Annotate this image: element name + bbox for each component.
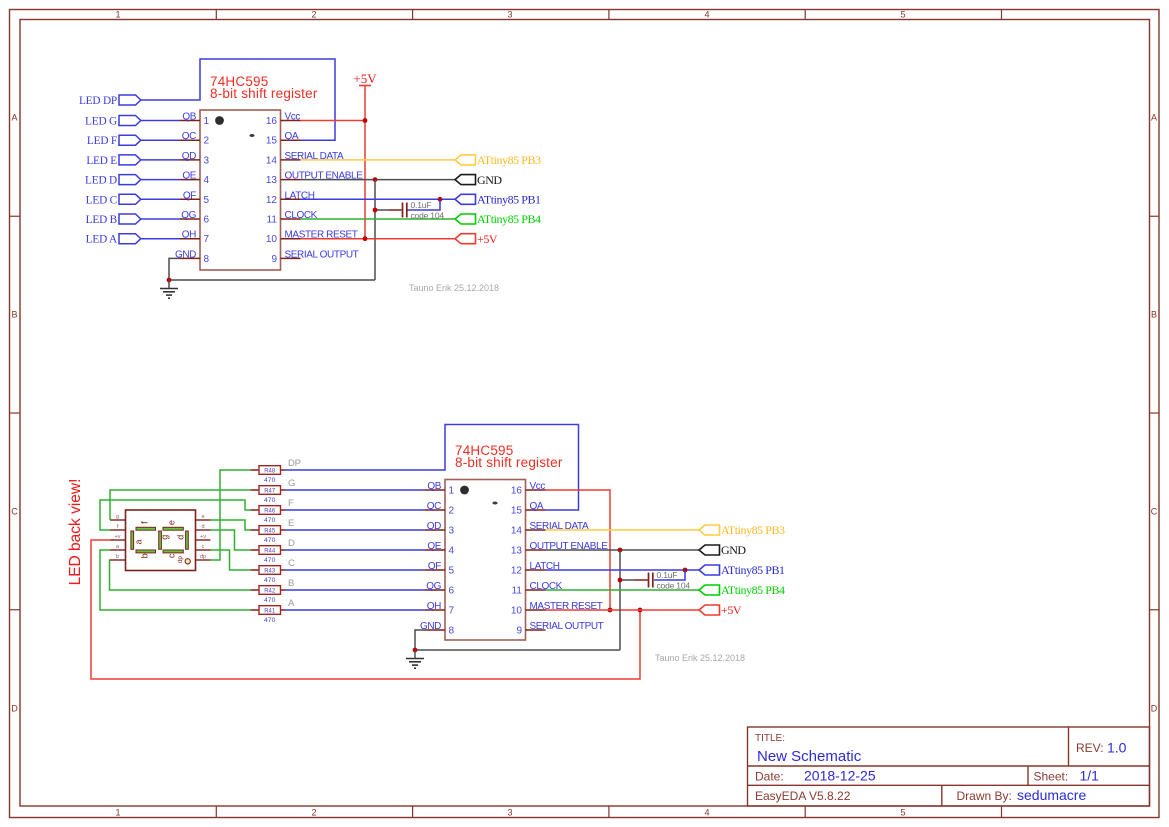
capacitor 0.1uF code 104 (bottom) [634,573,653,588]
junction capacitor/gray rail (bottom) [618,578,623,583]
wire LED G to pin [141,120,180,122]
svg-text:15: 15 [511,506,523,517]
net flag LED D [85,175,141,187]
U1 pin 7 QH [180,230,210,246]
U1 pin 2 QC [180,131,210,147]
svg-text:14: 14 [266,155,278,166]
segment g [159,531,170,549]
U1 pin 16 Vcc [266,112,301,128]
wire d to R44 (green) [211,530,251,550]
resistor R44 470 [251,546,286,564]
svg-text:g: g [160,535,170,540]
svg-text:5: 5 [900,10,905,20]
wire +v to +5V rail (red) [91,540,640,679]
net label C [288,558,295,569]
resistor R45 470 [251,526,286,544]
svg-text:LED back view!: LED back view! [67,479,84,586]
svg-text:1: 1 [449,486,455,497]
svg-text:EasyEDA V5.8.22: EasyEDA V5.8.22 [755,789,851,803]
net flag LED F [87,135,141,147]
net flag ATtiny85 PB4 (top circuit) [455,212,541,226]
capacitor 0.1uF code 104 (top) [389,203,408,218]
7-segment LED display DS1 body [126,510,196,571]
U1 pin 14 SERIAL DATA [266,151,344,167]
svg-text:LED F: LED F [87,135,117,147]
svg-text:7: 7 [449,606,455,617]
note Tauno Erik 25.12.2018 (top) [409,283,499,293]
svg-text:+5V: +5V [353,71,377,86]
title block REV: 1.0 [1076,740,1127,756]
svg-text:3: 3 [507,808,512,818]
label LED back view! [67,479,84,586]
svg-text:6: 6 [204,215,210,226]
U1 pin 1 QB [180,112,210,128]
wire SERIAL DATA to ATtiny85 PB3 (yellow) [301,159,456,161]
U1 pin 10 MASTER RESET [266,230,358,246]
capacitor code 104 [411,211,445,221]
U1 pin 12 LATCH [266,190,315,206]
op: top circuit 74HC595 shift register U1 [0,0,1,1]
segment d [175,531,188,549]
svg-text:dp: dp [177,556,184,564]
svg-text:1/1: 1/1 [1080,768,1100,784]
svg-text:1.0: 1.0 [1107,740,1127,756]
U2 pin 14 SERIAL DATA [511,521,589,537]
U2 label 74HC595 8-bit shift register [455,443,563,470]
svg-text:B: B [11,310,17,320]
svg-text:c: c [202,544,205,550]
U1 pin 8 GND [175,249,210,265]
svg-text:6: 6 [449,586,455,597]
svg-text:R48: R48 [264,468,276,474]
DS1 right pin e [196,514,211,520]
svg-text:LED A: LED A [86,234,118,246]
U1 pin 5 QF [180,190,210,206]
net flag LED A [86,234,141,246]
U2 pin 15 QA [511,501,546,517]
junction LATCH/capacitor (bottom) [683,568,688,573]
wire SERIAL DATA to ATtiny85 PB3 (yellow, bottom) [546,529,700,531]
resistor R41 470 [251,606,286,624]
svg-text:d: d [201,524,204,530]
svg-text:QB: QB [427,481,441,492]
net flag LED G [85,116,141,128]
svg-text:Vcc: Vcc [530,481,546,492]
DS1 left pin f [110,524,126,530]
junction Vcc/+5V [363,118,368,123]
svg-text:ATtiny85 PB1: ATtiny85 PB1 [477,193,541,207]
svg-text:8-bit shift register: 8-bit shift register [210,86,318,101]
svg-text:4: 4 [704,808,709,818]
svg-text:QH: QH [427,601,441,612]
svg-text:470: 470 [264,557,276,564]
svg-text:QE: QE [427,541,441,552]
svg-text:code 104: code 104 [657,581,691,591]
note Tauno Erik 25.12.2018 (bottom) [655,653,745,663]
svg-text:470: 470 [264,577,276,584]
net flag +5V (top circuit) [455,232,498,246]
net flag GND (bottom circuit) [699,543,746,557]
svg-text:QB: QB [182,112,196,123]
svg-text:LED G: LED G [85,116,117,128]
svg-text:GND: GND [721,543,746,557]
svg-text:A: A [1151,113,1157,123]
title block TITLE: New Schematic [755,733,862,765]
svg-text:QD: QD [427,521,441,532]
wire c to R43 (green) [211,550,251,570]
wire f to R46 (green) [100,500,251,530]
svg-text:C: C [11,507,18,517]
svg-text:4: 4 [449,546,455,557]
svg-text:REV:: REV: [1076,741,1104,755]
segment a [131,531,144,549]
wire a to R41 (green) [100,550,251,610]
net label E [288,518,294,529]
svg-text:A: A [288,598,295,609]
svg-text:a: a [134,539,144,544]
svg-text:QA: QA [285,131,299,142]
svg-text:b: b [116,554,119,560]
svg-text:1: 1 [115,10,120,20]
wire LED E to pin [141,159,180,161]
U1 pin 6 QG [180,210,210,226]
svg-text:+5V: +5V [477,232,498,246]
svg-text:sedumacre: sedumacre [1017,787,1086,803]
svg-text:QE: QE [182,171,196,182]
power symbol +5V (top) [353,71,377,121]
segment c [163,550,183,558]
svg-text:E: E [288,518,294,529]
wire dp to R48 (green) [211,470,251,560]
svg-text:QC: QC [427,501,441,512]
junction Vcc rail / MASTER RESET [608,608,613,613]
svg-text:QF: QF [183,190,196,201]
svg-text:QC: QC [182,131,196,142]
net flag LED B [86,214,141,226]
resistor R43 470 [251,566,286,584]
net label A [288,598,295,609]
svg-text:QA: QA [530,501,544,512]
U2 pin 12 LATCH [511,561,560,577]
svg-text:SERIAL OUTPUT: SERIAL OUTPUT [530,621,604,632]
U2 pin 13 OUTPUT ENABLE [511,541,608,557]
svg-text:C: C [288,558,295,569]
net label D [288,538,295,549]
svg-text:B: B [288,578,294,589]
U2 pin 2 QC [425,501,455,517]
U1 pin 13 OUTPUT ENABLE [266,171,363,187]
U1 pin 4 QE [180,171,210,187]
wire Vcc to +5V rail [301,120,366,122]
svg-text:QF: QF [428,561,441,572]
svg-text:c: c [166,553,176,558]
svg-text:13: 13 [266,175,278,186]
svg-text:470: 470 [264,517,276,524]
U2 pin 9 SERIAL OUTPUT [516,621,603,637]
svg-text:13: 13 [511,546,523,557]
wire capacitor right lead to LATCH [408,199,440,210]
wire ground rail (gray) [169,279,375,281]
wire capacitor left lead (gray) [375,209,389,211]
svg-text:R42: R42 [264,588,276,594]
wire GND pin to ground (bottom) [415,630,425,650]
svg-text:3: 3 [449,526,455,537]
svg-text:11: 11 [512,586,523,597]
svg-text:QG: QG [181,210,196,221]
svg-text:d: d [175,535,185,540]
svg-text:ATtiny85 PB3: ATtiny85 PB3 [721,523,785,537]
DS1 left pin b [110,554,126,560]
svg-text:R45: R45 [264,528,276,534]
U2 pin 3 QD [425,521,455,537]
svg-text:0.1uF: 0.1uF [657,570,678,580]
svg-text:A: A [11,113,17,123]
wire capacitor left lead (gray, bottom) [620,579,634,581]
segment b [136,550,156,558]
svg-text:2018-12-25: 2018-12-25 [804,768,876,784]
svg-text:+v: +v [200,534,206,540]
wire capacitor right lead to LATCH (bottom) [654,570,685,580]
net flag ATtiny85 PB4 (bottom circuit) [699,583,785,597]
wire LED B to pin [141,218,180,220]
svg-text:SERIAL OUTPUT: SERIAL OUTPUT [285,249,359,260]
wire e to R45 (green) [211,520,251,530]
svg-text:R44: R44 [264,548,276,554]
svg-text:QG: QG [426,581,441,592]
svg-text:10: 10 [266,234,278,245]
svg-text:QD: QD [182,151,196,162]
resistor R46 470 [251,506,286,524]
svg-text:D: D [1151,704,1158,714]
svg-text:ATtiny85 PB1: ATtiny85 PB1 [721,563,785,577]
net flag LED DP [79,95,141,107]
svg-text:R47: R47 [264,488,276,494]
resistor R48 470 [251,466,286,484]
wire LED C to pin [141,198,180,200]
U2 pin 11 CLOCK [512,581,563,597]
DS1 right pin +v [196,534,211,540]
U2 pin 10 MASTER RESET [511,601,603,617]
svg-text:LED B: LED B [86,214,117,226]
junction ground (bottom) [413,648,418,653]
svg-text:15: 15 [266,136,278,147]
net flag ATtiny85 PB3 (bottom circuit) [699,523,785,537]
svg-text:g: g [116,514,119,520]
svg-text:Sheet:: Sheet: [1034,770,1069,784]
resistor R42 470 [251,586,286,604]
DS1 left pin a [110,544,126,550]
segment f [136,521,156,530]
svg-text:b: b [140,553,150,558]
svg-text:QH: QH [182,230,196,241]
svg-text:1: 1 [204,116,210,127]
U2 pin 6 QG [425,581,455,597]
title block EasyEDA V5.8.22 [755,789,851,803]
svg-text:Drawn By:: Drawn By: [957,789,1012,803]
U1 label 74HC595 8-bit shift register [210,74,318,101]
svg-text:0.1uF: 0.1uF [411,200,432,210]
net flag GND (top circuit) [455,173,502,187]
U2 pin 16 Vcc [511,481,546,497]
svg-text:470: 470 [264,537,276,544]
junction OUTPUT ENABLE (bottom) [618,548,623,553]
U2 pin 1 QB [425,481,455,497]
svg-text:e: e [201,514,204,520]
wire LED DP to U1 QA (blue routing) [141,59,335,140]
svg-text:Date:: Date: [755,770,784,784]
capacitor value 0.1uF [411,200,432,210]
wire LATCH to ATtiny85 PB1 (blue) [301,198,456,200]
svg-text:470: 470 [264,497,276,504]
wire R45 to U2 pin (blue) [285,529,425,531]
svg-text:8-bit shift register: 8-bit shift register [455,455,563,470]
wire gray vertical from OUTPUT ENABLE to ground rail [374,180,376,280]
svg-text:LED C: LED C [86,194,117,206]
svg-text:F: F [288,498,294,509]
wire b to R42 (green) [110,560,251,590]
svg-text:GND: GND [477,173,502,187]
svg-text:LED D: LED D [85,175,117,187]
svg-text:Vcc: Vcc [285,112,301,123]
wire CLOCK to ATtiny85 PB4 (green, bottom) [546,589,700,591]
svg-text:1: 1 [115,808,120,818]
capacitor value 0.1uF (bottom) [657,570,678,580]
svg-text:2: 2 [204,136,210,147]
wire LED D to pin [141,179,180,181]
wire CLOCK to ATtiny85 PB4 (green) [301,218,456,220]
svg-text:10: 10 [511,606,523,617]
U1 pin 11 CLOCK [267,210,318,226]
U2 pin 8 GND [420,621,455,637]
resistor R47 470 [251,486,286,504]
wire Vcc to MASTER RESET (+5V, red) [546,490,611,610]
U1 pin 3 QD [180,151,210,167]
svg-text:New Schematic: New Schematic [757,748,862,765]
DS1 right pin dp [196,554,211,560]
svg-text:2: 2 [311,808,316,818]
U1 pin 15 QA [266,131,301,147]
svg-text:3: 3 [507,10,512,20]
wire OUTPUT ENABLE to GND flag (gray, bottom) [546,549,700,551]
svg-text:D: D [11,704,18,714]
svg-text:5: 5 [204,195,210,206]
net label B [288,578,294,589]
title block Date: 2018-12-25 [755,768,876,784]
svg-text:470: 470 [264,597,276,604]
svg-text:R41: R41 [264,608,276,614]
net flag LED C [86,194,141,206]
DS1 left pin +v [110,534,126,540]
svg-text:9: 9 [516,626,522,637]
capacitor code 104 (bottom) [657,581,691,591]
title block Sheet: 1/1 [1034,768,1100,784]
wire MASTER RESET to +5V flag (red) [546,609,700,611]
net label DP [288,458,301,469]
wire R43 to U2 pin (blue) [285,569,425,571]
wire MASTER RESET to +5V flag (red) [301,238,456,240]
svg-text:2: 2 [311,10,316,20]
svg-text:470: 470 [264,617,276,624]
svg-text:DP: DP [288,458,301,469]
svg-text:12: 12 [511,566,523,577]
svg-text:C: C [1151,507,1158,517]
svg-text:470: 470 [264,477,276,484]
svg-text:B: B [1151,310,1157,320]
ground symbol (bottom) [406,650,424,668]
svg-text:16: 16 [511,486,523,497]
junction ground [167,278,172,283]
svg-text:G: G [288,478,295,489]
junction LATCH/capacitor [438,197,443,202]
wire g to R47 (green) [110,490,251,520]
svg-text:8: 8 [204,254,210,265]
wire LATCH to ATtiny85 PB1 (blue, bottom) [546,569,700,571]
junction OUTPUT ENABLE [373,177,378,182]
DS1 left pin g [110,514,126,520]
DS1 right pin d [196,524,211,530]
wire LED F to pin [141,139,180,141]
svg-text:D: D [288,538,295,549]
wire +5V vertical rail to MASTER RESET [364,121,366,239]
U2 pin 4 QE [425,541,455,557]
wire gray vertical to ground rail (bottom) [619,550,621,650]
IC U2 74HC595 body (bottom) [445,480,526,641]
junction MASTER RESET/+5V rail [363,236,368,241]
wire R47 to U2 pin (blue) [285,489,425,491]
svg-text:TITLE:: TITLE: [755,733,785,744]
svg-text:16: 16 [266,116,278,127]
title block Drawn By: sedumacre [957,787,1087,803]
svg-text:LED DP: LED DP [79,95,117,107]
net flag LED E [86,155,140,167]
svg-text:7: 7 [204,234,210,245]
svg-text:ATtiny85 PB4: ATtiny85 PB4 [477,212,541,226]
svg-text:ATtiny85 PB4: ATtiny85 PB4 [721,583,785,597]
svg-text:9: 9 [271,254,277,265]
wire R44 to U2 pin (blue) [285,549,425,551]
svg-text:12: 12 [266,195,278,206]
svg-text:4: 4 [204,175,210,186]
title block [748,727,1150,806]
wire R42 to U2 pin (blue) [285,589,425,591]
svg-text:e: e [166,520,176,525]
svg-text:5: 5 [449,566,455,577]
junction capacitor/gray rail [373,208,378,213]
svg-text:8: 8 [449,626,455,637]
U2 pin 5 QF [425,561,455,577]
wire R48 to U2 QA routing (blue box) [285,425,579,511]
wire R46 to U2 pin (blue) [285,509,425,511]
svg-text:2: 2 [449,506,455,517]
svg-text:ATtiny85 PB3: ATtiny85 PB3 [477,153,541,167]
ground symbol (top) [160,280,178,298]
IC U1 74HC595 body [200,110,281,270]
svg-text:4: 4 [704,10,709,20]
svg-text:+5V: +5V [721,603,742,617]
net label F [288,498,294,509]
svg-text:3: 3 [204,155,210,166]
segment e [163,520,183,530]
DS1 right pin c [196,544,211,550]
svg-text:LED E: LED E [86,155,117,167]
svg-text:Tauno Erik 25.12.2018: Tauno Erik 25.12.2018 [655,653,745,663]
U1 pin 9 SERIAL OUTPUT [271,249,358,265]
svg-text:dp: dp [200,554,206,560]
wire OUTPUT ENABLE to GND flag (gray) [301,179,456,181]
U2 pin 7 QH [425,601,455,617]
net label G [288,478,295,489]
wire R41 to U2 pin (blue) [285,609,425,611]
